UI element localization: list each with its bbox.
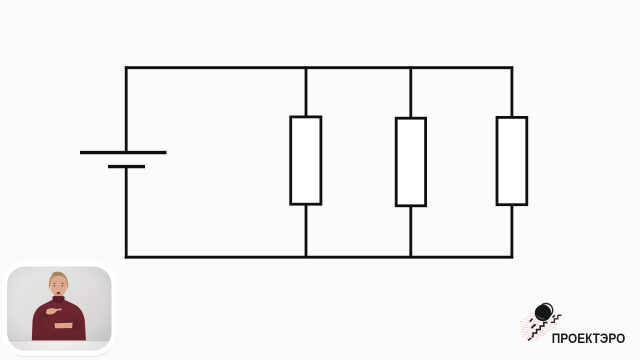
logo motion dash upper <box>530 319 533 322</box>
video vignette <box>7 267 112 351</box>
resistor R3 <box>497 117 527 204</box>
interpreter turtleneck collar <box>53 297 65 304</box>
interpreter left flat hand <box>55 323 76 328</box>
wire left lower <box>125 167 128 259</box>
battery BT1 short plate <box>108 165 145 168</box>
interpreter hair <box>49 272 68 290</box>
logo ball <box>535 305 551 321</box>
interpreter video background <box>7 267 112 351</box>
battery BT1 long plate <box>80 151 167 154</box>
logo ring <box>539 304 552 317</box>
wire left upper <box>125 66 128 151</box>
interpreter hair bun <box>52 272 63 276</box>
wire branch R1 bottom <box>305 203 308 257</box>
interpreter right forearm sleeve <box>37 310 54 327</box>
sign language interpreter video shadow <box>4 264 116 358</box>
interpreter face <box>50 276 67 297</box>
interpreter eyes <box>54 285 56 287</box>
resistor R1 <box>291 117 321 204</box>
interpreter pointing hand <box>46 308 62 314</box>
resistor R2 <box>396 118 425 206</box>
logo stairs lower <box>532 323 548 337</box>
svg-text:ПРОЕКТЭРО: ПРОЕКТЭРО <box>552 331 626 346</box>
sign language interpreter video overlay frame <box>3 261 117 356</box>
interpreter mouth <box>57 292 61 294</box>
interpreter eyebrows <box>53 282 64 285</box>
interpreter left wrist sleeve <box>72 319 81 331</box>
logo stairs lower foot dash <box>528 338 531 341</box>
wire right upper <box>510 66 513 119</box>
interpreter neck <box>54 294 63 301</box>
logo ball highlight <box>537 315 545 319</box>
wire bottom <box>125 256 513 259</box>
logo stairs upper <box>551 315 562 322</box>
interpreter sweater body <box>32 296 87 350</box>
wire branch R1 top <box>305 66 308 118</box>
logo stair small dash right of ball <box>552 315 555 317</box>
logo red hatch <box>514 300 569 356</box>
table edge line <box>7 340 112 342</box>
wire right lower <box>510 203 513 259</box>
table top <box>7 341 112 351</box>
logo motion dash lower <box>531 324 535 328</box>
wire branch R2 top <box>409 66 412 119</box>
wire top <box>125 66 513 69</box>
wire branch R2 bottom <box>409 204 412 257</box>
